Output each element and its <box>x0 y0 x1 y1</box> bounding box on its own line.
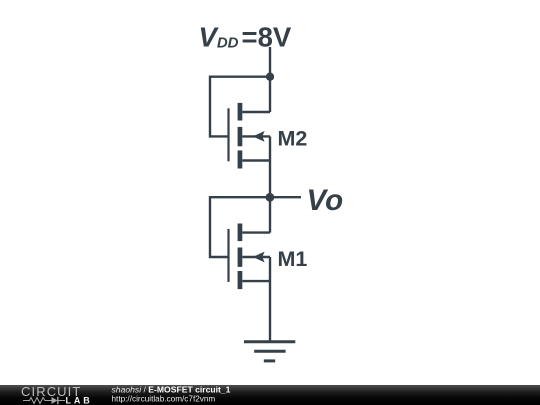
transistor M1 (E-MOSFET) <box>229 224 271 290</box>
M1 channel segment body <box>238 248 243 267</box>
wire VDD terminal to M2 drain <box>269 47 271 112</box>
wire Vo stub <box>270 196 301 198</box>
M2 bulk arrow <box>253 131 265 142</box>
svg-text:VDD=8V: VDD=8V <box>199 21 292 52</box>
wire M2 gate-to-drain loop <box>210 77 270 137</box>
wire M2 source/bulk to Vo node <box>269 136 271 197</box>
M1 channel segment source <box>238 271 243 289</box>
M1 bulk arrow <box>253 252 265 263</box>
voltage label VDD=8V <box>199 21 292 52</box>
node Vo junction <box>266 193 275 202</box>
svg-text:M1: M1 <box>278 247 308 271</box>
logo resistor and diode art <box>23 397 65 404</box>
svg-text:LAB: LAB <box>66 395 93 405</box>
wire M1 gate-to-drain loop <box>210 197 270 257</box>
M2 channel segment drain <box>238 103 243 121</box>
M2 channel segment body <box>238 127 243 146</box>
node junction at VDD rail <box>266 73 274 81</box>
M1 gate line <box>227 229 229 282</box>
transistor M2 (E-MOSFET) <box>229 103 271 169</box>
label Vo <box>307 184 344 217</box>
M2 drain lead <box>242 111 270 113</box>
wire Vo node to M1 drain <box>269 197 271 232</box>
M1 drain lead <box>242 231 270 233</box>
M2 source lead <box>242 159 270 161</box>
svg-text:http://circuitlab.com/c7f2vnm: http://circuitlab.com/c7f2vnm <box>112 394 216 403</box>
M1 bulk lead <box>242 256 270 258</box>
M1 channel segment drain <box>238 224 243 242</box>
wire M1 source to ground <box>269 257 271 342</box>
M2 bulk lead <box>242 135 270 137</box>
svg-text:Vo: Vo <box>307 184 344 217</box>
M2 gate line <box>227 108 229 161</box>
svg-text:M2: M2 <box>278 127 308 151</box>
svg-text:shaohsi / E-MOSFET circuit_1: shaohsi / E-MOSFET circuit_1 <box>112 384 231 394</box>
M2 channel segment source <box>238 150 243 168</box>
footer bar <box>0 385 540 405</box>
ground symbol <box>244 342 295 361</box>
M1 source lead <box>242 280 270 282</box>
label M1 <box>278 247 308 271</box>
CircuitLab logo <box>21 384 93 405</box>
label M2 <box>278 127 308 151</box>
